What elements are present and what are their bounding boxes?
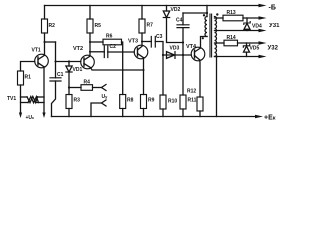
node Y32 bottom arrowhead [259, 55, 267, 58]
resistor R14 [224, 40, 238, 46]
wire C4 top lead [182, 13, 184, 25]
wire R4 to input terminal [93, 87, 102, 89]
svg-text:R7: R7 [147, 23, 154, 29]
svg-text:VT4: VT4 [186, 44, 197, 50]
svg-text:+Ек: +Ек [264, 115, 276, 122]
transistor VT3 [134, 45, 148, 59]
svg-text:R13: R13 [227, 10, 236, 16]
svg-text:R6: R6 [106, 34, 113, 40]
wire R8 bottom to rail [122, 109, 124, 117]
svg-text:R12: R12 [187, 89, 196, 95]
resistor R8 [120, 95, 126, 109]
svg-text:VD3: VD3 [170, 46, 180, 52]
node rail/C4 junction [206, 12, 208, 14]
capacitor C3 [151, 37, 155, 48]
node TV2 primary phase dot [203, 14, 205, 16]
diode VD2 [163, 11, 169, 18]
node junction VT1 collector branch [44, 41, 46, 43]
svg-text:VD2: VD2 [171, 7, 181, 13]
wire VT1 base [21, 62, 35, 72]
wire Y32 return [217, 56, 260, 58]
wire R3 top lead [68, 88, 70, 95]
wire R11 bottom to rail [182, 109, 184, 117]
node C1 top junction [55, 61, 57, 63]
wire R12 bottom to rail [199, 111, 201, 117]
wire down to VT2 base node [55, 42, 57, 62]
node C2 left junction [89, 51, 91, 53]
node secondary common junction [215, 55, 217, 57]
transistor VT2 [81, 55, 95, 69]
resistor R7 [139, 19, 145, 33]
wire secondary tap to R13 [215, 17, 224, 19]
resistor R10 [160, 95, 166, 109]
svg-text:VT2: VT2 [73, 46, 83, 52]
svg-text:VT3: VT3 [128, 39, 138, 45]
wire C3 right corner down [155, 42, 163, 56]
wire VT4 collector step to TV2 primary [201, 37, 208, 49]
wire R5 to VT2 collector [89, 33, 91, 56]
node +Ek arrowhead [255, 115, 263, 118]
wire bottom rail [52, 116, 256, 118]
node Y32 top arrowhead [259, 41, 267, 44]
wire to R4 [69, 87, 81, 89]
node TV2 secondary phase dot [216, 13, 218, 15]
wire R6 right corner down [122, 42, 123, 95]
svg-text:VD5: VD5 [250, 46, 260, 52]
capacitor C1 [50, 78, 61, 81]
wire VD1 to R3/R4 node [68, 72, 70, 88]
wire R10 bottom to rail [162, 109, 164, 117]
wire R5 branch from rail [89, 6, 91, 20]
svg-text:У32: У32 [268, 46, 279, 52]
node VD2/C4 junction [182, 41, 184, 43]
node primary phase dot [202, 37, 204, 39]
node VT4 base junction [182, 54, 184, 56]
wire VT1 emitter to TV1 [43, 67, 45, 113]
resistor R5 [87, 19, 93, 33]
svg-text:-Б: -Б [269, 5, 276, 12]
node input terminal upper chevron [102, 85, 107, 91]
svg-text:R3: R3 [74, 98, 81, 104]
transformer TV2 primary winding [205, 17, 207, 37]
svg-text:R5: R5 [95, 23, 102, 29]
wire R14 to output Y32 [238, 42, 260, 44]
wire secondary tap to R14 [215, 42, 225, 44]
node emitter junction [143, 69, 145, 71]
resistor R3 [66, 95, 72, 109]
wire VD2 cathode to C4 node [167, 18, 184, 43]
wire secondary bottom tap [215, 56, 217, 58]
svg-text:R1: R1 [25, 75, 32, 81]
svg-text:У31: У31 [269, 23, 280, 29]
wire VT4 base node down to R11 [182, 55, 184, 95]
wire VT4 emitter to R12 [199, 60, 202, 97]
resistor R12 [197, 97, 203, 111]
transistor VT1 [35, 54, 49, 68]
diode VD1 [68, 62, 70, 67]
wire R2 branch from rail down [44, 6, 46, 20]
wire C4 bottom lead to VT4 base node [182, 28, 184, 55]
resistor R9 [141, 95, 147, 109]
wire VT3 emitter to R9 [143, 58, 145, 95]
wire C1 top lead [55, 62, 57, 78]
node VD3 anode junction [162, 54, 164, 56]
svg-text:R10: R10 [168, 99, 177, 105]
wire secondary tap Y31 return [215, 30, 260, 32]
resistor R4 [81, 85, 93, 91]
wire R7 branch from rail [141, 6, 143, 20]
svg-text:C1: C1 [57, 72, 64, 78]
wire VD2 branch from rail [166, 6, 168, 12]
wire to R6 [90, 41, 103, 43]
wire lower input terminal [91, 103, 102, 117]
resistor R13 [223, 15, 243, 21]
svg-text:R2: R2 [49, 23, 56, 29]
transformer TV2 core [210, 14, 212, 57]
transistor VT4 [191, 47, 205, 61]
wire R13 to output Y31 [243, 17, 259, 19]
node TV1 right lead arrow [42, 113, 45, 119]
node R6 left junction [89, 41, 91, 43]
capacitor C4 [177, 25, 189, 28]
capacitor C2 [104, 46, 108, 58]
wire to C3 [142, 41, 151, 43]
svg-text:VD1: VD1 [73, 67, 83, 73]
diode VD3 [163, 54, 191, 56]
wire R2 to VT1 collector [44, 33, 46, 55]
node R3/R4 junction [68, 86, 70, 88]
node -Ek arrowhead on top rail [259, 4, 267, 7]
wire R3 bottom to rail [68, 109, 70, 117]
resistor R11 [180, 95, 186, 109]
wire common down to bottom rail [216, 57, 218, 117]
svg-text:R9: R9 [148, 98, 155, 104]
wire to C2 [90, 51, 104, 53]
svg-text:R14: R14 [227, 35, 236, 41]
wire VT2 base line [56, 61, 81, 63]
resistor R1 [18, 71, 24, 85]
wire C4 top link to rail drop [183, 12, 207, 14]
svg-text:C2: C2 [110, 44, 117, 50]
svg-text:R11: R11 [188, 98, 197, 104]
wire R1 bottom to TV1 [20, 85, 22, 113]
diode VD5 [246, 43, 248, 46]
transformer TV2 secondary winding [215, 17, 217, 57]
node TV1 left lead arrow [19, 113, 22, 119]
diode VD4 [246, 18, 248, 23]
wire VD3 anode node down to R10 [162, 55, 164, 95]
resistor R6 [103, 39, 122, 45]
wire R9 bottom to rail [143, 109, 145, 117]
node input terminal lower chevron [102, 100, 107, 106]
svg-text:VT1: VT1 [32, 48, 41, 54]
node Y31 bottom arrowhead [259, 29, 267, 32]
svg-text:TV1: TV1 [7, 96, 16, 102]
svg-text:R8: R8 [127, 98, 134, 104]
transformer TV1 [21, 96, 28, 98]
node C3 left junction [141, 41, 143, 43]
node VD1 top junction [68, 60, 70, 62]
svg-text:C4: C4 [176, 18, 183, 24]
wire C2 to VT3 base [108, 51, 135, 53]
wire R7 to VT3 collector [141, 33, 143, 45]
svg-text:C3: C3 [156, 34, 163, 40]
wire top supply rail [45, 5, 260, 7]
svg-text:R4: R4 [84, 80, 91, 86]
wire VT1 collector branch to C1/base line [45, 41, 56, 43]
svg-text:VD4: VD4 [252, 24, 262, 30]
wire TV2 rail drop [206, 6, 208, 17]
node Y31 top arrowhead [259, 16, 267, 19]
wire C1 bottom lead to ground rail [52, 81, 56, 117]
wire VT2 emitter line [91, 68, 144, 70]
resistor R2 [42, 19, 48, 33]
